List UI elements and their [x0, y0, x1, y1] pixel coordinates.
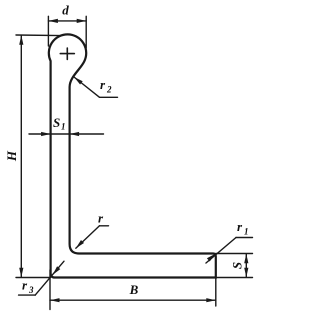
- svg-text:H: H: [4, 150, 19, 162]
- svg-text:1: 1: [244, 227, 249, 237]
- svg-text:S: S: [230, 262, 245, 269]
- dimension B (flange width): [50, 270, 216, 310]
- leader r3 (heel radius): [19, 261, 64, 295]
- dimension S1 (web thickness): [29, 133, 104, 135]
- dimension S (flange thickness): [216, 254, 253, 278]
- bulb center mark: [60, 48, 74, 59]
- leader r (inner fillet): [76, 226, 109, 248]
- svg-text:1: 1: [61, 122, 66, 132]
- dimension d: [48, 16, 86, 48]
- leader r2 (bulb neck radius): [74, 77, 118, 97]
- profile outline (bulb angle section): [49, 34, 216, 277]
- svg-text:2: 2: [106, 85, 112, 95]
- svg-text:S: S: [53, 115, 60, 130]
- svg-text:d: d: [62, 3, 69, 18]
- dimension H: [16, 35, 61, 278]
- leader r1 (flange toe radius): [206, 238, 253, 264]
- svg-text:3: 3: [28, 285, 34, 295]
- svg-text:B: B: [129, 282, 139, 297]
